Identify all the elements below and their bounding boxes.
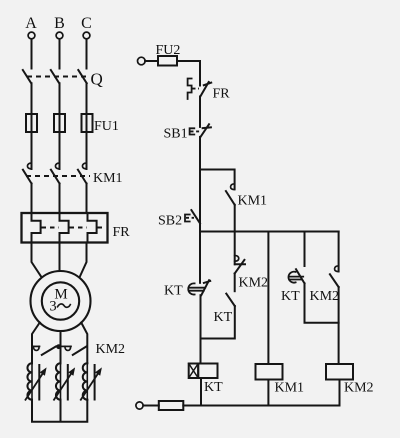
svg-text:C: C [81,15,92,32]
svg-text:KM2: KM2 [239,276,269,291]
svg-text:KT: KT [281,289,300,304]
svg-text:B: B [54,15,65,32]
svg-text:KM1: KM1 [238,194,268,209]
svg-text:KM2: KM2 [96,342,126,357]
svg-text:SB2: SB2 [158,214,182,229]
svg-text:SB1: SB1 [164,127,188,142]
svg-text:FU1: FU1 [94,119,119,134]
svg-text:FR: FR [113,225,131,240]
svg-text:KM1: KM1 [275,381,305,396]
svg-text:3: 3 [49,299,56,315]
svg-text:KM2: KM2 [310,289,340,304]
svg-text:KT: KT [204,380,223,395]
svg-text:KT: KT [214,310,233,325]
svg-text:KM2: KM2 [344,381,374,396]
svg-text:KM1: KM1 [93,171,123,186]
svg-text:A: A [25,15,37,32]
svg-text:FR: FR [213,87,231,102]
svg-text:KT: KT [164,284,183,299]
svg-text:Q: Q [91,70,103,89]
